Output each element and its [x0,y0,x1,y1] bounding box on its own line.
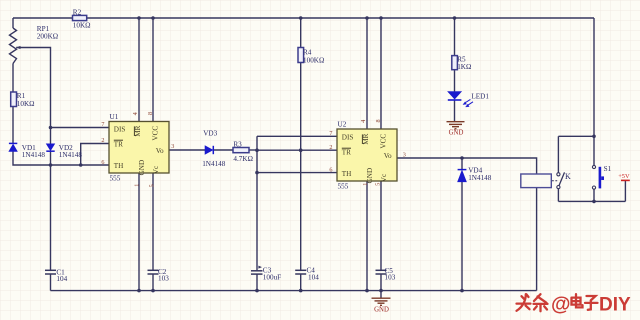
svg-text:104: 104 [308,273,319,281]
svg-text:MR: MR [362,133,370,144]
capacitor C3 polarity mark [258,266,262,269]
wire R4 down through TR node to C4 [300,63,302,271]
wire R5 to LED1 [454,70,456,92]
char dian [572,294,583,307]
LED1 [448,92,473,107]
svg-text:103: 103 [385,273,396,281]
svg-text:VD3: VD3 [203,129,217,137]
U2 pin numbers [329,119,405,185]
resistor R4 [298,48,304,63]
svg-text:+5V: +5V [618,173,630,180]
U1 pin numbers [101,112,174,187]
wire U2 pin4 to top rail [366,18,368,129]
svg-text:@: @ [551,294,571,316]
capacitor C3 [251,271,263,274]
svg-text:S1: S1 [604,165,612,173]
svg-text:1: 1 [133,184,140,187]
wire R1 to VD1 [12,107,14,144]
svg-text:2: 2 [329,144,332,151]
svg-text:MR: MR [134,125,142,136]
wire bottom right bus [558,200,625,202]
wire S1 top [593,136,595,165]
svg-text:1KΩ: 1KΩ [457,63,471,71]
wire K branch horizontal [558,135,594,137]
svg-text:DIS: DIS [342,133,354,141]
svg-text:U2: U2 [338,120,347,128]
wire RP1 to R1 [12,64,14,93]
svg-text:Vo: Vo [384,152,392,160]
+5V power [621,179,630,181]
svg-text:104: 104 [56,275,67,283]
resistor R2 [73,15,87,20]
resistor R5 [452,56,458,70]
U1 inner pin names [114,125,164,175]
diode VD1 [9,143,17,151]
wire U1 pin5 to C2 [152,173,154,270]
svg-text:10KΩ: 10KΩ [17,100,35,108]
pushbutton S1 [592,165,595,189]
wire U1 pin1 to bottom rail [138,173,140,291]
svg-text:200KΩ: 200KΩ [37,32,58,40]
wire R4 top to rail [300,18,302,48]
switch K contacts [557,172,565,188]
svg-text:555: 555 [110,175,121,183]
ground under LED1 [447,122,465,129]
potentiometer RP1 zigzag [10,28,17,64]
svg-text:TR: TR [114,141,123,149]
svg-text:4: 4 [360,120,367,123]
svg-text:DIS: DIS [114,125,126,133]
svg-text:TH: TH [342,170,352,178]
resistor R3 [233,148,249,153]
wire U2 TH pin6 [257,172,337,174]
wire U1 Vo pin3 to VD3 [169,149,205,151]
svg-text:GND: GND [449,129,464,136]
relay mechanical link [552,180,557,182]
wire K bottom contact [557,189,559,202]
relay coil K [521,174,552,188]
wire U2 DIS pin7 [257,135,337,137]
svg-text:100KΩ: 100KΩ [303,57,324,65]
capacitor C2 [148,270,159,274]
wire VD3 to R3 [214,149,234,151]
wire U1 TR pin2 [81,144,109,166]
wire LED1 cathode to ground [454,100,456,121]
svg-text:5: 5 [148,184,155,187]
svg-text:555: 555 [338,182,349,190]
wire top rail left segment [13,17,73,19]
svg-text:LED1: LED1 [471,92,489,100]
wire bottom rail [51,290,537,292]
U2 MR overline [361,134,363,144]
char zi [585,296,598,310]
wire C2 to bottom rail [152,274,154,291]
svg-text:10KΩ: 10KΩ [73,22,91,30]
wire U1 DIS pin7 [51,127,110,129]
svg-text:7: 7 [329,130,332,137]
svg-text:GND: GND [366,168,374,184]
U2 TR overline [342,147,351,149]
wire timing node column [256,136,258,270]
svg-text:VCC: VCC [152,126,160,141]
wire top rail right segment [87,17,595,19]
char tou [517,294,531,311]
svg-text:U1: U1 [110,113,119,121]
wire VD1 to TH rail corner [13,151,109,165]
diode VD2 [46,144,54,151]
op 555 U1 body [109,122,169,174]
svg-text:VCC: VCC [380,134,388,149]
svg-text:4: 4 [132,112,139,115]
wire U2 pin5 to C5 [380,181,382,270]
capacitor C1 [45,270,56,274]
svg-text:1: 1 [362,183,369,186]
wire U2 Vo pin3 to relay [397,158,537,174]
wire VD4 cathode to bottom rail [461,182,463,291]
svg-text:6: 6 [329,166,332,173]
svg-text:TR: TR [342,149,351,157]
svg-text:1N4148: 1N4148 [59,151,83,159]
svg-text:3: 3 [403,151,406,158]
wire C3 to bottom rail [256,274,258,291]
svg-text:Vc: Vc [152,166,160,174]
wire U1 pin8 to top rail [152,18,154,122]
capacitor C5 [376,270,387,274]
svg-text:7: 7 [101,121,104,128]
wire R3 to node [249,149,257,151]
svg-text:4.7KΩ: 4.7KΩ [233,155,253,163]
wire relay bottom to rail [536,188,538,291]
wire U2 pin1 to bottom rail [366,181,368,291]
svg-text:TH: TH [114,162,124,170]
U2 inner pin names [342,133,392,183]
wire U2 TR pin2 [257,149,337,151]
svg-text:GND: GND [138,160,146,176]
svg-text:R4: R4 [303,49,312,57]
wire U1 pin4 to top rail [138,18,140,122]
svg-text:3: 3 [171,143,174,150]
svg-text:1N4148: 1N4148 [202,160,226,168]
wire VD2 to C1 [50,151,52,270]
wire R5 to top rail [454,18,456,56]
svg-text:R3: R3 [233,140,242,148]
char tiao [534,294,548,311]
diode VD4 [458,170,467,182]
diode VD3 [205,146,213,154]
U1 MR overline [133,126,135,136]
svg-text:R1: R1 [17,92,26,100]
wire VD4 anode stem [461,158,463,169]
wire C5 to bottom rail [380,274,382,291]
watermark 头条@电子DIY [517,294,548,311]
wire RP1 wiper tap [16,46,21,49]
wire C1 to bottom rail [50,274,52,291]
svg-text:GND: GND [374,307,389,314]
wire right drop to K/S1 branch [593,18,595,136]
svg-text:Vc: Vc [380,174,388,182]
wire left column top [12,18,14,28]
svg-text:DIY: DIY [599,295,631,316]
svg-text:103: 103 [158,274,169,282]
svg-text:R2: R2 [73,9,82,17]
wire C4 to bottom rail [300,274,302,291]
svg-text:K: K [565,172,571,181]
resistor R1 [11,92,17,107]
svg-text:Vo: Vo [156,147,164,155]
wire U2 pin8 to top rail [380,18,382,129]
svg-text:5: 5 [374,183,381,186]
svg-text:2: 2 [101,137,104,144]
svg-text:8: 8 [375,119,382,122]
svg-text:1N4148: 1N4148 [468,174,492,182]
svg-text:6: 6 [101,159,104,166]
capacitor C4 [295,270,306,274]
svg-text:8: 8 [147,112,154,115]
svg-text:100uF: 100uF [263,273,281,281]
wire +5V stem [624,181,626,201]
svg-text:1N4148: 1N4148 [22,151,46,159]
wire S1 bottom [593,189,595,201]
U1 TR overline [114,139,123,141]
op 555 U2 body [337,129,397,181]
wire K top contact [557,136,559,172]
ground under U2 [372,291,391,306]
